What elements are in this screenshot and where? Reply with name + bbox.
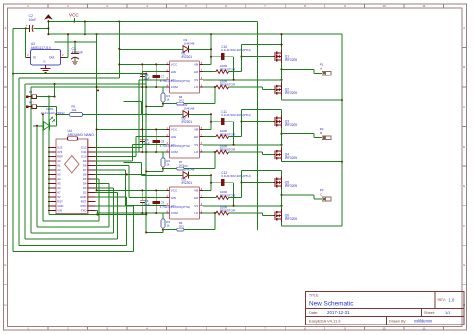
wire Rh riser: [214, 152, 216, 169]
svg-text:VB: VB: [194, 189, 198, 193]
svg-text:C: C: [4, 105, 6, 109]
wire bottom loop 4: [31, 232, 114, 234]
wire D10-HIN2 a: [96, 155, 136, 157]
svg-text:10uF: 10uF: [143, 77, 150, 81]
ground symbol U3: [41, 69, 51, 73]
wire LO riser: [262, 213, 264, 216]
wire source to right bus: [282, 161, 343, 163]
wire mid distribution vertical: [256, 22, 258, 231]
wire diode anode: [142, 174, 184, 176]
svg-text:COM: COM: [171, 150, 179, 154]
wire phase vertical: [281, 189, 283, 209]
svg-text:RESISTOR: RESISTOR: [220, 132, 236, 136]
resistor R1 1k: [161, 87, 170, 106]
wire source to right bus: [282, 99, 343, 101]
wire diode cathode: [189, 48, 211, 50]
junction gate tee: [240, 120, 242, 122]
U4 pins left: [48, 146, 63, 213]
capacitor C5 10uF: [140, 129, 150, 152]
svg-text:D3: D3: [83, 186, 87, 190]
svg-text:11: 11: [423, 327, 426, 331]
wire R chain a: [163, 103, 177, 105]
wire 5V short rail: [55, 41, 97, 43]
wire phase vertical: [281, 63, 283, 83]
voltage regulator U3 AMS1117-5.0: [26, 42, 65, 68]
wire rail B: [19, 77, 120, 79]
resistor 100R (LO U1): [216, 79, 236, 89]
wire D10-HIN2 b: [135, 137, 137, 157]
connector P2: [320, 127, 331, 140]
svg-text:VCC: VCC: [171, 63, 178, 67]
junction cap feed: [210, 121, 212, 123]
wire to high gate: [242, 182, 274, 184]
transistor Q2 IRF3205: [273, 83, 297, 96]
svg-text:D6: D6: [83, 173, 87, 177]
svg-text:D12: D12: [81, 146, 87, 150]
resistor R4 2K2: [177, 95, 185, 105]
diode D3 1N4148: [183, 164, 195, 179]
svg-text:P5: P5: [29, 100, 33, 104]
junction Rh LO row: [214, 212, 216, 214]
svg-text:F: F: [463, 224, 465, 228]
svg-text:REF: REF: [57, 155, 63, 159]
svg-text:VCC: VCC: [171, 189, 178, 193]
wire drain feed: [242, 44, 282, 46]
junction cap2 com: [155, 151, 157, 153]
wire rail C to J1: [54, 84, 56, 97]
transistor Q6 IRF3205: [273, 209, 297, 222]
wire anode riser: [141, 163, 143, 176]
wire Out: [65, 56, 68, 58]
svg-text:RESISTOR: RESISTOR: [220, 193, 236, 197]
svg-text:A3: A3: [57, 173, 61, 177]
svg-text:C7: C7: [161, 74, 165, 78]
svg-text:4.7UF(16V-20%)(PTH): 4.7UF(16V-20%)(PTH): [160, 144, 190, 148]
wire D7-LIN3 a: [96, 169, 126, 171]
svg-text:HO: HO: [194, 70, 199, 74]
wire C2 to VCC stem: [33, 27, 48, 29]
connector J1: [26, 90, 37, 98]
svg-text:IR2301: IR2301: [182, 181, 193, 185]
wire LED to R5 riser: [55, 107, 57, 126]
wire COM row: [31, 86, 166, 88]
junction rail2 x96: [96, 33, 98, 35]
svg-text:2K2: 2K2: [179, 98, 185, 102]
junction phase tap: [280, 133, 282, 135]
wire Rh riser: [214, 213, 216, 230]
resistor 100R (HO U2): [216, 129, 236, 138]
wire connector step: [313, 69, 315, 73]
svg-text:A1: A1: [57, 164, 61, 168]
transistor Q5 IRF3205: [273, 176, 297, 189]
wire to high gate: [242, 56, 274, 58]
svg-text:G: G: [463, 263, 465, 267]
wire to connector: [282, 194, 315, 196]
svg-text:A6: A6: [57, 186, 61, 190]
svg-text:C8: C8: [161, 139, 165, 143]
resistor R3 1k: [161, 213, 170, 232]
svg-text:HIN: HIN: [171, 196, 176, 200]
capacitor C11: [211, 110, 251, 145]
diode D1 1N4148: [183, 38, 195, 53]
svg-text:10uF: 10uF: [143, 142, 150, 146]
mcu U4 ARDUINO NANO: [56, 129, 94, 214]
svg-text:10k: 10k: [71, 108, 76, 112]
svg-text:REV:: REV:: [438, 298, 446, 302]
junction right bus: [341, 161, 343, 163]
svg-text:D11: D11: [81, 150, 86, 154]
svg-text:VIN: VIN: [57, 209, 62, 213]
svg-text:A2: A2: [57, 168, 61, 172]
wire TXD out: [96, 210, 98, 212]
svg-text:1.0: 1.0: [449, 297, 455, 302]
svg-text:VCC: VCC: [69, 13, 79, 18]
wire D5-loop2 b: [98, 179, 100, 221]
svg-text:LO: LO: [194, 150, 199, 154]
svg-text:1k: 1k: [166, 223, 170, 227]
wire R chain b: [184, 229, 215, 231]
wire top rail VCC: [48, 21, 257, 23]
wire left loop v2: [42, 114, 44, 221]
wire rail C: [26, 83, 147, 85]
svg-text:RST: RST: [57, 200, 63, 204]
wire HO riser: [241, 110, 243, 137]
svg-text:LO: LO: [194, 211, 199, 215]
junction C3 top: [74, 41, 76, 43]
svg-text:IR2301: IR2301: [182, 120, 193, 124]
junction cap1 vcc: [141, 189, 143, 191]
junction cap feed: [210, 182, 212, 184]
wire connector in: [314, 72, 322, 74]
wire to low gate: [263, 89, 274, 91]
svg-text:1k: 1k: [166, 162, 170, 166]
junction cap-VS: [233, 144, 235, 146]
resistor 100R (HO U1): [216, 64, 236, 73]
wire to connector: [282, 133, 315, 135]
wire left loop v3: [36, 126, 38, 227]
wire rail1-rail2 link: [84, 22, 86, 35]
diode D2 1N4148: [183, 103, 195, 118]
wire LO a: [203, 212, 216, 214]
junction arrow rail1: [47, 20, 49, 22]
wire D4-loop3 a: [96, 182, 109, 184]
capacitor C4 10uF: [140, 64, 150, 87]
junction chain Rh: [162, 103, 164, 105]
svg-text:VCC: VCC: [171, 128, 178, 132]
junction VCC distribution: [96, 189, 98, 191]
svg-text:GND: GND: [80, 195, 86, 199]
svg-text:+: +: [26, 24, 28, 28]
svg-text:D4: D4: [83, 182, 87, 186]
wire D6 row: [96, 173, 147, 175]
capacitor C8 electrolytic: [153, 129, 191, 152]
wire source drop: [281, 160, 283, 163]
svg-text:G: G: [4, 263, 6, 267]
svg-text:0.1UF-50V-20%(PTH): 0.1UF-50V-20%(PTH): [221, 113, 250, 117]
junction gate tee: [240, 181, 242, 183]
junction loop1 gnd bus: [145, 214, 147, 216]
junction cap2 vcc: [155, 189, 157, 191]
wire VCC stem: [73, 18, 75, 22]
svg-text:1N4148: 1N4148: [184, 167, 195, 171]
wire J1 out: [37, 96, 55, 98]
wire Q1 drain: [281, 34, 283, 50]
svg-text:E: E: [463, 184, 465, 188]
wire R chain b: [184, 103, 215, 105]
capacitor C3: [71, 42, 83, 65]
junction rail2 x211: [210, 33, 212, 35]
svg-text:2K2: 2K2: [179, 224, 185, 228]
gate driver U1 IR2301: [166, 51, 203, 93]
junction Rh LO row: [214, 86, 216, 88]
wire drain riser: [281, 110, 283, 115]
svg-text:VB: VB: [194, 128, 198, 132]
wire to low gate: [263, 215, 274, 217]
junction rail C x54: [53, 83, 55, 85]
wire RXD-loop7 b: [133, 206, 135, 252]
svg-text:IRF3205: IRF3205: [285, 156, 297, 160]
connector J2: [26, 100, 37, 108]
wire connector step: [313, 195, 315, 199]
svg-text:D10: D10: [81, 155, 87, 159]
wire rail2 drop to D1: [210, 34, 212, 49]
wire R5 left: [56, 113, 69, 115]
svg-text:HO: HO: [194, 135, 199, 139]
svg-text:RXD: RXD: [80, 204, 86, 208]
wire diode anode: [119, 48, 183, 50]
gate driver U5 IR2301: [166, 177, 203, 219]
capacitor C10: [211, 45, 251, 80]
junction chain Rh: [162, 229, 164, 231]
wire C2 left: [13, 27, 30, 29]
junction cap2 com: [155, 212, 157, 214]
svg-text:F: F: [5, 224, 7, 228]
svg-text:Drawn By:: Drawn By:: [389, 320, 407, 324]
wire HO b: [229, 136, 242, 138]
junction stem rail2: [47, 33, 49, 35]
wire source to right bus: [282, 225, 343, 227]
svg-text:A0: A0: [57, 159, 61, 163]
svg-text:B: B: [320, 131, 322, 135]
wire J2 out: [37, 106, 57, 108]
wire bottom loop 3: [37, 226, 109, 228]
svg-text:GND: GND: [57, 204, 63, 208]
svg-text:xxlildenxx: xxlildenxx: [414, 319, 433, 324]
svg-text:D13: D13: [57, 146, 63, 150]
resistor R6 2K2: [177, 221, 185, 231]
wire connector in: [314, 137, 322, 139]
svg-text:10uF: 10uF: [29, 18, 37, 22]
svg-text:P4: P4: [29, 90, 33, 94]
svg-text:1/1: 1/1: [445, 310, 451, 315]
junction VCC distribution: [96, 128, 98, 130]
svg-text:IR2301: IR2301: [182, 55, 193, 59]
svg-text:E: E: [4, 184, 6, 188]
svg-text:HIN: HIN: [171, 135, 176, 139]
junction COM gnd bus: [145, 151, 147, 153]
svg-text:2017-12-31: 2017-12-31: [327, 310, 350, 315]
svg-text:5V: 5V: [57, 195, 61, 199]
wire left loop v5: [24, 84, 26, 239]
wire source drop: [281, 96, 283, 100]
wire LED cathode: [49, 125, 56, 127]
svg-text:VS: VS: [194, 143, 198, 147]
junction v2 R5 row: [42, 113, 44, 115]
wire x119 vertical: [118, 22, 120, 79]
svg-text:A: A: [463, 26, 465, 30]
junction C2 In riser: [25, 27, 27, 29]
svg-text:A: A: [4, 26, 6, 30]
junction LED anode: [36, 125, 38, 127]
svg-text:COM: COM: [171, 211, 179, 215]
svg-text:C9: C9: [161, 200, 165, 204]
wire bottom loop 2: [43, 220, 99, 222]
wire connector in: [314, 198, 322, 200]
svg-text:RESISTOR: RESISTOR: [220, 148, 236, 152]
junction drain feed tee: [280, 44, 282, 46]
svg-text:HIN: HIN: [171, 70, 176, 74]
wire bottom loop 7: [13, 251, 134, 253]
wire left loop v4: [30, 87, 32, 233]
svg-text:In: In: [33, 56, 36, 60]
junction cap2 vcc: [155, 63, 157, 65]
junction cap-VS: [233, 205, 235, 207]
wire to high gate: [242, 121, 274, 123]
svg-text:1N4148: 1N4148: [184, 106, 195, 110]
svg-text:C: C: [463, 105, 465, 109]
svg-text:A: A: [320, 67, 322, 71]
wire D11-LIN1 b: [138, 80, 140, 152]
wire D8-HIN3 b: [128, 165, 130, 197]
junction COM gnd bus: [145, 212, 147, 214]
wire D3-loop4 b: [113, 188, 115, 233]
connector P1: [320, 63, 331, 76]
wire drain feed: [242, 109, 282, 111]
wire R chain gnd: [146, 231, 163, 233]
svg-text:IRF3205: IRF3205: [285, 58, 297, 62]
junction cap1 vcc: [141, 128, 143, 130]
wire Rh riser: [214, 87, 216, 104]
transistor Q3 IRF3205: [273, 115, 297, 128]
wire VCC row: [97, 189, 166, 191]
svg-text:TITLE:: TITLE:: [309, 294, 319, 298]
wire VB riser: [210, 49, 212, 64]
wire rail2 left drop: [96, 34, 98, 87]
junction C2/arrow: [47, 27, 49, 29]
svg-text:D8: D8: [83, 164, 87, 168]
power flag arrow: [44, 14, 53, 34]
wire drain feed: [242, 170, 282, 172]
svg-text:New Schematic: New Schematic: [309, 301, 354, 308]
wire GND-loop6 a: [96, 196, 127, 198]
resistor R2 1k: [161, 152, 170, 171]
wire HO a: [203, 136, 216, 138]
wire D9-LIN2 b: [131, 145, 133, 161]
junction Rh LO row: [214, 151, 216, 153]
wire D2-loop5 a: [96, 192, 118, 194]
junction chain gnd bus: [145, 231, 147, 233]
svg-text:D5: D5: [83, 177, 87, 181]
wire RXD-loop7 a: [96, 205, 134, 207]
wire D11-LIN1 a: [96, 151, 140, 153]
svg-text:COM: COM: [171, 85, 179, 89]
wire VCC distribution: [96, 87, 98, 190]
junction J1 riser: [53, 96, 55, 98]
wire LO a: [203, 86, 216, 88]
wire R chain gnd: [146, 170, 163, 172]
svg-text:Date:: Date:: [309, 311, 318, 315]
junction R5 row: [55, 113, 57, 115]
wire VB: [203, 189, 211, 191]
wire LO b: [229, 212, 263, 214]
wire right bus vertical: [341, 34, 343, 226]
transistor Q4 IRF3205: [273, 148, 297, 161]
wire to connector: [282, 68, 315, 70]
junction R5 gnd bus: [145, 113, 147, 115]
junction cap1 com: [141, 212, 143, 214]
resistor R5: [70, 105, 83, 117]
wire In: [25, 56, 27, 58]
wire D12-HIN1 b: [142, 72, 144, 148]
junction VCC row v119: [118, 63, 120, 65]
junction COM gnd bus: [145, 86, 147, 88]
svg-text:VS: VS: [194, 204, 198, 208]
transistor Q1 IRF3205: [273, 50, 297, 63]
wire diode anode: [142, 113, 184, 115]
resistor 100R (LO U5): [216, 205, 236, 215]
svg-text:IRF3205: IRF3205: [285, 91, 297, 95]
junction right bus: [341, 99, 343, 101]
wire left loop v1: [48, 97, 50, 215]
junction phase tap: [280, 194, 282, 196]
junction cap1 vcc: [141, 63, 143, 65]
svg-text:ARDUINO NANO: ARDUINO NANO: [68, 133, 95, 137]
wire GND bus: [145, 74, 147, 233]
wire D12-HIN1 a: [96, 146, 143, 148]
wire COM row: [97, 212, 166, 214]
svg-text:11: 11: [423, 4, 426, 8]
wire connector step: [313, 134, 315, 138]
junction link rail2: [84, 33, 86, 35]
wire LO riser: [262, 87, 264, 90]
junction VB: [210, 48, 212, 50]
LED LED1: [41, 107, 66, 130]
wire R chain a: [163, 168, 177, 170]
wire D9-LIN2 a: [96, 160, 133, 162]
wire R5 right: [83, 113, 147, 115]
svg-text:RESISTOR: RESISTOR: [220, 83, 236, 87]
junction phase-VS: [280, 205, 282, 207]
junction cap1 com: [141, 86, 143, 88]
svg-text:IRF3205: IRF3205: [285, 217, 297, 221]
wire anode riser: [141, 102, 143, 115]
junction drain rail: [280, 33, 282, 35]
wire GND-loop6 b: [126, 197, 128, 245]
wire VS to phase: [203, 79, 282, 81]
svg-text:0.1UF-50V-20%(PTH): 0.1UF-50V-20%(PTH): [221, 174, 250, 178]
junction COM row x96: [96, 86, 98, 88]
junction v1 J1 row: [48, 96, 50, 98]
wire left loop v6: [18, 78, 20, 245]
gate driver U2 IR2301: [166, 116, 203, 158]
svg-text:RESISTOR: RESISTOR: [220, 67, 236, 71]
svg-text:H: H: [4, 303, 6, 307]
svg-text:B: B: [4, 65, 6, 69]
wire R chain b: [184, 168, 215, 170]
svg-text:IRF3205: IRF3205: [285, 184, 297, 188]
wire LED anode: [33, 125, 44, 127]
wire gnd rail A: [13, 73, 146, 75]
